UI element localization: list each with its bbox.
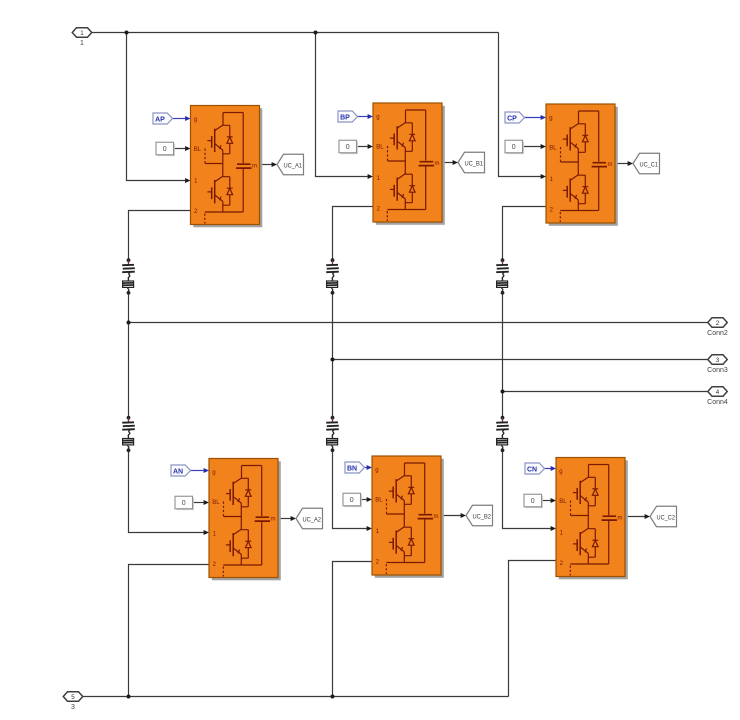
arrow into UC_C2 [645,514,650,519]
svg-text:UC_B2: UC_B2 [473,513,492,520]
wire CN m to UC_C2 [625,516,645,518]
connection port 3 Conn3 [707,355,728,374]
wire A mid vertical [128,293,130,417]
inductor L_B1 [326,258,339,294]
arrow into UC_A1 [272,162,277,167]
svg-text:BP: BP [340,115,350,122]
svg-text:3: 3 [716,357,720,364]
from tag CN [525,463,545,474]
wire B lower to BN port 1 [333,450,367,528]
inductor L_C2 [496,416,509,452]
constant 0 for A1 [156,142,175,156]
arrow into C1 g [541,115,546,120]
svg-text:UC_C2: UC_C2 [657,514,676,521]
arrow into C1 port 1 [541,174,546,179]
arrow into AN g [204,468,209,473]
goto tag UC_A2 [296,508,323,529]
wire const to B1 BL [357,146,368,148]
wire C1 port 2 down [503,207,547,260]
connection port 4 Conn4 [707,387,728,406]
junction node Conn2 on A branch [127,321,131,325]
wire drop A to A1 port 1 [127,33,186,181]
svg-text:UC_A2: UC_A2 [303,516,322,523]
wire BN tag to BN g [365,467,367,469]
half-bridge block C1 [546,104,618,226]
svg-text:1: 1 [80,30,84,37]
wire const to A1 BL [174,148,186,150]
svg-text:3: 3 [71,704,75,711]
wire to Conn2 [129,322,708,324]
wire to Conn4 [503,391,708,393]
wire BN m to UC_B2 [441,515,461,517]
constant 0 for C1 [505,140,524,154]
svg-text:AP: AP [155,117,165,124]
arrow into AN BL [204,500,209,505]
goto tag UC_B1 [458,152,485,173]
junction node bottom bus at A [127,695,131,699]
junction node on top bus at A drop [125,31,129,35]
wire C mid vertical [502,293,504,417]
wire A1 m to UC_A1 [260,164,273,166]
wire BP to B1 g [358,116,368,118]
junction node Conn4 on C branch [501,390,505,394]
wire CN port 2 down [509,561,557,697]
svg-text:Conn4: Conn4 [707,399,728,406]
wire to Conn3 [333,359,708,361]
svg-text:AN: AN [173,469,183,476]
constant 0 for B1 [339,140,358,154]
wire B1 port 2 down [333,207,374,260]
constant 0 for BN [343,493,362,507]
half-bridge block A1 [191,106,263,228]
wire const to AN BL [193,502,204,504]
from tag AN [171,465,191,476]
wire top bus from port 1 [92,32,499,34]
wire AN m to UC_A2 [278,518,291,520]
junction node bottom bus at B [331,695,335,699]
inductor L_A1 [122,258,135,294]
svg-text:5: 5 [71,694,75,701]
junction node on top bus at B drop [314,31,318,35]
wire AN tag to AN g [191,470,204,472]
wire AN port 2 down [129,565,210,697]
wire drop C to C1 port 1 [499,33,541,177]
wire A1 port 2 down [129,211,191,260]
inductor L_C1 [496,258,509,294]
wire A lower to AN port 1 [129,450,204,532]
half-bridge block B1 [373,103,445,225]
junction node Conn3 on B branch [331,358,335,362]
svg-text:Conn3: Conn3 [707,367,728,374]
arrow into B1 port 1 [368,174,373,179]
arrow into BN g [367,465,372,470]
arrow into UC_C1 [628,161,633,166]
wire AP to A1 g [173,118,186,120]
arrow into BN BL [367,497,372,502]
svg-text:2: 2 [716,320,720,327]
svg-text:CP: CP [507,116,517,123]
constant 0 for CN [524,494,543,508]
arrow into BN port 1 [367,526,372,531]
svg-text:1: 1 [80,40,84,47]
half-bridge block AN (A2) [209,459,281,581]
constant 0 for AN [175,496,194,510]
arrow into CN port 1 [551,526,556,531]
arrow into UC_B1 [453,160,458,165]
svg-text:UC_C1: UC_C1 [640,161,659,168]
svg-text:UC_B1: UC_B1 [465,160,484,167]
from tag BN [345,462,365,473]
arrow into A1 g [185,116,190,121]
svg-text:BN: BN [347,466,357,473]
arrow into A1 BL [185,146,190,151]
arrow into AN port 1 [204,530,209,535]
wire bottom bus from port 5 [83,696,509,698]
arrow into B1 BL [368,144,373,149]
connection port 5 (bottom left) [63,692,83,711]
svg-text:CN: CN [527,467,537,474]
from tag CP [505,112,525,123]
wire C lower to CN port 1 [503,450,551,528]
goto tag UC_C1 [633,153,660,174]
from tag AP [153,113,173,124]
svg-text:Conn2: Conn2 [707,330,728,337]
arrow into CN g [551,466,556,471]
arrow into CN BL [551,498,556,503]
half-bridge block CN (C2) [556,458,628,580]
wire CN tag to CN g [545,468,551,470]
goto tag UC_C2 [650,506,677,527]
inductor L_A2 [122,416,135,452]
goto tag UC_A1 [277,154,304,175]
wire const to C1 BL [523,146,541,148]
wire BN port 2 down [333,562,373,697]
inductor L_B2 [326,416,339,452]
arrow into UC_A2 [291,516,296,521]
half-bridge block BN (B2) [372,456,444,578]
goto tag UC_B2 [466,505,493,526]
arrow into A1 port 1 [185,178,190,183]
wire B mid vertical [332,293,334,417]
wire const to BN BL [361,499,367,501]
svg-text:4: 4 [716,389,720,396]
from tag BP [338,111,358,122]
arrow into C1 BL [541,144,546,149]
wire CP to C1 g [525,117,541,119]
wire drop B to B1 port 1 [316,33,368,177]
wire const to CN BL [542,500,551,502]
arrow into B1 g [368,114,373,119]
svg-text:UC_A1: UC_A1 [284,162,303,169]
connection port 2 Conn2 [707,318,728,337]
wire C1 m to UC_C1 [615,163,628,165]
connection port 1 (top left) [72,28,92,47]
arrow into UC_B2 [461,513,466,518]
wire B1 m to UC_B1 [442,162,453,164]
